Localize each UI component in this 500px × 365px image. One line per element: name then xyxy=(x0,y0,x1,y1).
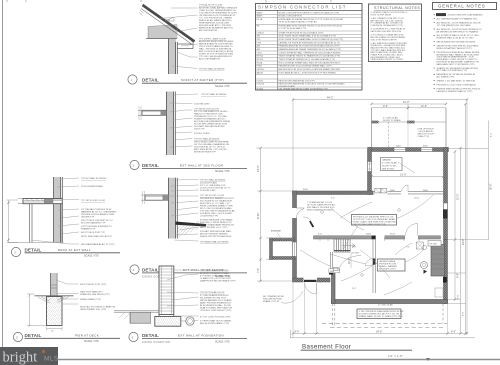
svg-text:PIER AT DECK: PIER AT DECK xyxy=(75,333,99,337)
svg-text:DIMS IN FIELD PRIOR TO CONST.: DIMS IN FIELD PRIOR TO CONST. xyxy=(371,59,404,61)
svg-text:TYP EXT WALL AT SIDING: TYP EXT WALL AT SIDING xyxy=(199,68,225,71)
svg-text:SEE NOTES: SEE NOTES xyxy=(382,168,395,170)
interior wall vertical xyxy=(365,239,375,293)
earth hatch xyxy=(177,225,205,238)
svg-text:1/4" = 1'-0": 1/4" = 1'-0" xyxy=(388,354,403,358)
svg-text:11'-6": 11'-6" xyxy=(421,105,427,108)
drain tile xyxy=(186,317,194,325)
svg-text:AREAWAY: AREAWAY xyxy=(271,230,282,233)
rake ticks xyxy=(139,10,144,16)
window in left upper wall xyxy=(368,162,372,172)
svg-text:30'-8": 30'-8" xyxy=(490,184,493,190)
svg-text:XXXXXX DENOTES LOAD BEARING: XXXXXX DENOTES LOAD BEARING xyxy=(448,14,483,17)
svg-text:8'-0": 8'-0" xyxy=(463,312,465,316)
interior wall top horizontal xyxy=(373,185,444,195)
hatched wall: right xyxy=(444,148,448,240)
svg-text:HDG HARDWARE AT ALL PT (TYP): HDG HARDWARE AT ALL PT (TYP) xyxy=(81,243,115,246)
svg-text:BE VERIFIED W/ MFR PRIOR TO FR: BE VERIFIED W/ MFR PRIOR TO FRAMING xyxy=(437,30,479,33)
svg-text:FINISH GRADE (TYP): FINISH GRADE (TYP) xyxy=(80,298,101,301)
svg-text:7'-0": 7'-0" xyxy=(257,268,260,273)
svg-text:SCALE: NTS: SCALE: NTS xyxy=(84,340,99,343)
svg-text:10'-2": 10'-2" xyxy=(348,258,351,264)
svg-text:24'-6": 24'-6" xyxy=(376,331,382,334)
svg-text:NOTE: SEE PLAN FOR LAYOUT: NOTE: SEE PLAN FOR LAYOUT xyxy=(81,235,113,238)
title row detail 1 xyxy=(128,75,247,88)
detail 4: ext wall at 1st floor xyxy=(130,178,247,279)
svg-text:MTS12: MTS12 xyxy=(257,56,265,58)
stair treads xyxy=(334,239,359,255)
svg-text:AIR CIRCULATION: AIR CIRCULATION xyxy=(199,29,217,32)
grade wedge xyxy=(176,222,207,227)
title row detail 5 xyxy=(13,332,120,343)
svg-text:TE W/ (5) 8d NAILS EA END (TYP: TE W/ (5) 8d NAILS EA END (TYP AT ALL xyxy=(279,21,319,24)
svg-text:SIMPSON CONNECTOR LIST: SIMPSON CONNECTOR LIST xyxy=(258,5,347,10)
svg-text:TYPICAL ROOF COLOR: TYPICAL ROOF COLOR xyxy=(199,4,223,7)
svg-text:6X6 PT WOOD POST (TYP): 6X6 PT WOOD POST (TYP) xyxy=(80,284,107,286)
svg-text:ROOF 30 PSF SNOW: ROOF 30 PSF SNOW xyxy=(371,14,392,16)
stair bottom door frames xyxy=(334,256,361,271)
svg-text:DETAIL: DETAIL xyxy=(25,247,42,252)
svg-text:SHIELD PROTECTION AS REQD: SHIELD PROTECTION AS REQD xyxy=(200,235,232,238)
structural notes box xyxy=(369,4,422,62)
ledger / floor band xyxy=(23,199,62,204)
simpson connector list table xyxy=(256,4,363,91)
svg-text:LSTA12: LSTA12 xyxy=(257,31,265,34)
svg-text:9'-2": 9'-2" xyxy=(331,198,335,200)
svg-text:PVT SOFFIT - EAVE COLOR: PVT SOFFIT - EAVE COLOR xyxy=(199,37,227,40)
up label box xyxy=(428,241,441,247)
svg-text:SCALE: NTS: SCALE: NTS xyxy=(215,341,230,344)
door opening w/ lintel in bottom-left wall xyxy=(304,278,318,295)
svg-text:AT 4" MAX CLR SPACING (TYP): AT 4" MAX CLR SPACING (TYP) xyxy=(437,69,468,72)
detail 6: ext wall at foundation xyxy=(114,266,247,344)
svg-text:WIRED W/ BATTERY BACKUP (TYP): WIRED W/ BATTERY BACKUP (TYP) xyxy=(437,47,472,50)
svg-text:MLS: MLS xyxy=(44,356,59,363)
svg-text:STUD PLATE TIE AT SHEAR WALL H: STUD PLATE TIE AT SHEAR WALL HOLD DOWNS … xyxy=(279,38,344,41)
boxed note mid xyxy=(352,215,397,227)
black post below stair block xyxy=(443,277,447,283)
title row detail 3 xyxy=(11,247,120,257)
svg-text:DETAIL: DETAIL xyxy=(142,267,159,272)
svg-text:LADDER IF DEEPER THAN 44" (TYP: LADDER IF DEEPER THAN 44" (TYP) xyxy=(437,90,473,93)
svg-text:BATH FANS VENT TO EXTERIOR (TY: BATH FANS VENT TO EXTERIOR (TYP) xyxy=(437,63,475,66)
soffit box xyxy=(177,42,193,49)
svg-text:44'-2": 44'-2" xyxy=(327,97,333,100)
svg-text:INTERIOR FINISH TYP: INTERIOR FINISH TYP xyxy=(194,151,217,153)
svg-text:ALL DIMENSIONS ARE TO FRAMING: ALL DIMENSIONS ARE TO FRAMING UNO xyxy=(437,18,478,21)
window gap right wall xyxy=(444,203,448,210)
svg-text:SEE ELEVATIONS FOR WINDOW SIZE: SEE ELEVATIONS FOR WINDOW SIZES xyxy=(437,41,476,44)
svg-text:H2.5A: H2.5A xyxy=(257,18,263,21)
svg-text:UNDISTURBED SOIL (TYP): UNDISTURBED SOIL (TYP) xyxy=(80,309,107,311)
svg-text:CS16: CS16 xyxy=(257,52,263,54)
window top-right xyxy=(421,146,433,152)
svg-text:4" CONC SLAB: 4" CONC SLAB xyxy=(378,303,393,306)
svg-text:MARK: MARK xyxy=(257,12,264,15)
svg-text:COILED STRAP AT WALL OPENINGS: COILED STRAP AT WALL OPENINGS W/ (14) 10… xyxy=(279,51,341,54)
svg-text:LEDGER TYP: LEDGER TYP xyxy=(81,217,95,219)
svg-text:DETAIL: DETAIL xyxy=(142,78,159,83)
svg-text:SIDING CONDITION: SIDING CONDITION xyxy=(142,341,170,344)
svg-text:CONCRETE OR MASONRY (TYP): CONCRETE OR MASONRY (TYP) xyxy=(371,24,404,27)
leaders d4 xyxy=(165,180,199,242)
door gap left wall xyxy=(292,208,305,218)
svg-text:SCALE: NTS: SCALE: NTS xyxy=(215,170,230,173)
svg-text:MARK: MARK xyxy=(257,15,264,18)
footing xyxy=(155,317,181,327)
svg-text:DECK AT EXT WALL: DECK AT EXT WALL xyxy=(58,248,91,252)
svg-text:2X4 SILL PLATE: 2X4 SILL PLATE xyxy=(194,132,210,135)
svg-text:MTS16: MTS16 xyxy=(257,59,265,61)
text block soffit colour xyxy=(199,37,234,60)
svg-text:9'-8": 9'-8" xyxy=(457,273,460,278)
svg-text:SCALE: NTS: SCALE: NTS xyxy=(215,85,230,88)
areaway window well xyxy=(270,189,309,259)
door below post right wall xyxy=(435,288,443,297)
dark block in right wall xyxy=(443,210,448,219)
svg-text:8" X 16" CONC FOOTING (TYP): 8" X 16" CONC FOOTING (TYP) xyxy=(200,316,231,318)
bright MLS watermark xyxy=(0,347,59,365)
svg-text:FRAMING ANGLE AT SHEAR TRANSFE: FRAMING ANGLE AT SHEAR TRANSFER W/ (12) … xyxy=(279,48,342,51)
svg-text:HOOKUPS (TYP): HOOKUPS (TYP) xyxy=(379,269,396,271)
svg-text:FRAMING TYP: FRAMING TYP xyxy=(81,228,96,231)
sheet border left xyxy=(2,0,4,347)
svg-text:CONTROL JOINT LAYOUT (TYP): CONTROL JOINT LAYOUT (TYP) xyxy=(200,309,232,312)
svg-text:LUS210: LUS210 xyxy=(257,84,265,86)
hatched wall: bottom-left xyxy=(293,278,331,282)
svg-text:FRAMING ANGLE AT BLOCKING W/ (: FRAMING ANGLE AT BLOCKING W/ (8) 8d NAIL… xyxy=(279,45,340,48)
leaders d3 xyxy=(31,178,79,244)
svg-text:W8X18 STEEL BEAM OVER (TYP): W8X18 STEEL BEAM OVER (TYP) xyxy=(353,223,386,226)
svg-text:1/2" OSB SPACER UNO ON PLANS: 1/2" OSB SPACER UNO ON PLANS xyxy=(437,24,471,27)
svg-text:24'-8": 24'-8" xyxy=(462,239,465,245)
svg-text:SSTB16: SSTB16 xyxy=(257,69,266,71)
svg-text:7'-1": 7'-1" xyxy=(406,247,410,249)
svg-text:INTERIOR WALLS 2X4 AT 16" OC U: INTERIOR WALLS 2X4 AT 16" OC UNO xyxy=(437,37,475,40)
interior wall mid horizontal xyxy=(314,224,441,240)
svg-text:8'-0": 8'-0" xyxy=(295,331,300,334)
sheet border bottom xyxy=(58,359,500,361)
svg-text:6'-8": 6'-8" xyxy=(352,247,356,249)
svg-text:PROVIDE ILC 2015 CODE COMPLIAN: PROVIDE ILC 2015 CODE COMPLIANCE xyxy=(437,83,477,86)
svg-text:FACE MOUNT HANGER AT 2X6 (TYP): FACE MOUNT HANGER AT 2X6 (TYP) xyxy=(279,79,316,82)
svg-text:MIN 6" IN FIRST 10'-0" (TYP): MIN 6" IN FIRST 10'-0" (TYP) xyxy=(200,227,228,229)
foundation wall xyxy=(159,266,174,315)
grade at left / slab xyxy=(114,311,159,313)
window in left wall at areaway xyxy=(293,242,297,257)
svg-text:UP 14R: UP 14R xyxy=(430,243,438,245)
svg-text:STAIRS: 7 3/4" MAX RISE / 10": STAIRS: 7 3/4" MAX RISE / 10" MIN RUN xyxy=(437,80,476,83)
roof sheathing sloped band xyxy=(143,5,195,42)
svg-text:TYP EXT'R SLAB COLOR: TYP EXT'R SLAB COLOR xyxy=(200,291,225,294)
svg-text:8'-0": 8'-0" xyxy=(458,295,460,299)
svg-text:6X6 PT DECK POST TYP: 6X6 PT DECK POST TYP xyxy=(81,232,106,234)
svg-text:HD2A: HD2A xyxy=(257,61,263,64)
svg-text:LATERAL TIE PLATE AT RIM BOARD: LATERAL TIE PLATE AT RIM BOARD W/ (12) 8… xyxy=(279,41,341,44)
dims xyxy=(27,294,47,327)
svg-text:DETAIL: DETAIL xyxy=(142,333,159,338)
bottom wall gray xyxy=(332,300,448,304)
hatched wall: step horizontal xyxy=(293,191,374,195)
svg-text:TYP EXT WALL AT SIDING: TYP EXT WALL AT SIDING xyxy=(201,93,227,96)
svg-text:TYP EXT WALL AT SIDING: TYP EXT WALL AT SIDING xyxy=(200,179,226,182)
hatched wall: left lower vertical xyxy=(293,191,297,281)
title row detail 2 xyxy=(130,160,247,173)
svg-text:W/ JOIST HANGERS TYP: W/ JOIST HANGERS TYP xyxy=(81,222,106,225)
hatched wall: right lower xyxy=(444,240,448,304)
svg-text:SLOPE TO DR.: SLOPE TO DR. xyxy=(382,166,397,168)
detail 5: pier at deck xyxy=(13,273,120,343)
detail 2: ext wall at 2nd floor xyxy=(130,92,247,174)
svg-text:STRUCTURAL NOTES: STRUCTURAL NOTES xyxy=(374,6,420,10)
svg-text:13'-6": 13'-6" xyxy=(390,234,396,236)
svg-text:ABU44: ABU44 xyxy=(257,71,264,74)
svg-text:8'-0": 8'-0" xyxy=(451,331,456,334)
svg-text:ANCHOR BOLT AT HOLD DOWN LOCAT: ANCHOR BOLT AT HOLD DOWN LOCATIONS EMBED… xyxy=(279,68,341,71)
svg-text:GENERAL NOTES: GENERAL NOTES xyxy=(438,4,486,9)
junction post black xyxy=(372,236,376,240)
title row detail 6 xyxy=(129,332,247,344)
garage label box xyxy=(381,158,403,171)
grade line xyxy=(35,295,74,297)
svg-text:PLAN (TYP): PLAN (TYP) xyxy=(418,135,430,138)
svg-text:EXT WALL AT FOUNDATION: EXT WALL AT FOUNDATION xyxy=(178,333,224,337)
svg-text:21'-0": 21'-0" xyxy=(400,174,406,177)
svg-text:Basement Floor: Basement Floor xyxy=(302,344,351,351)
garage interior dim xyxy=(370,174,444,178)
svg-text:5'-0": 5'-0" xyxy=(318,234,322,236)
floor band xyxy=(142,110,167,115)
svg-text:FRAME (TYP) PT.: FRAME (TYP) PT. xyxy=(263,300,280,303)
post xyxy=(51,273,58,297)
svg-text:SLOPE TO DRAIN: SLOPE TO DRAIN xyxy=(383,119,401,122)
svg-text:TYP EXT WALL AT SIDING: TYP EXT WALL AT SIDING xyxy=(194,137,220,140)
svg-text:D POST W/ (8) 8d NAILS TYP: D POST W/ (8) 8d NAILS TYP xyxy=(279,27,308,30)
bottom line xyxy=(8,242,64,244)
svg-text:GRAVEL BASE. SLOPE TO DRAIN (T: GRAVEL BASE. SLOPE TO DRAIN (TYP) UNO xyxy=(359,315,403,318)
deck post xyxy=(30,204,33,243)
svg-text:LUS26: LUS26 xyxy=(257,80,264,82)
svg-text:MODEL / DESCRIPTION: MODEL / DESCRIPTION xyxy=(279,16,303,18)
detail 3: deck at ext wall xyxy=(7,177,121,257)
svg-text:8'-10": 8'-10" xyxy=(257,213,260,219)
earth hatch left/right xyxy=(37,296,51,303)
svg-text:bright: bright xyxy=(3,350,38,365)
wall at eave xyxy=(169,39,176,74)
gray stair block xyxy=(431,245,445,277)
svg-text:2X10 RIM JOIST: 2X10 RIM JOIST xyxy=(194,103,210,105)
svg-text:TYP 1ST FLOOR COLOR: TYP 1ST FLOOR COLOR xyxy=(200,195,225,197)
stair room wall vertical gray xyxy=(332,271,336,304)
svg-text:TYP EXT WALL AT SIDING: TYP EXT WALL AT SIDING xyxy=(81,177,107,180)
svg-text:14'-4": 14'-4" xyxy=(257,166,260,172)
laundry note box xyxy=(378,259,406,271)
svg-text:ALL STAIRS (TYP): ALL STAIRS (TYP) xyxy=(437,76,455,79)
svg-text:DETAIL: DETAIL xyxy=(25,333,42,338)
hatched wall: left upper xyxy=(368,148,372,195)
leaders d1 xyxy=(160,8,198,69)
bottom note box xyxy=(357,309,404,319)
svg-text:UP 14R: UP 14R xyxy=(352,253,360,255)
svg-text:ADD'L INFORMATION: ADD'L INFORMATION xyxy=(199,58,220,61)
svg-text:21'-0": 21'-0" xyxy=(403,101,409,104)
svg-text:INSUL BLANKET AT WALLS: INSUL BLANKET AT WALLS xyxy=(307,208,334,211)
top dimension lines xyxy=(292,97,468,334)
svg-text:TYP BRACE WALL AT SIDING: TYP BRACE WALL AT SIDING xyxy=(200,241,229,244)
svg-text:10'-6": 10'-6" xyxy=(414,198,420,200)
top edge ticks xyxy=(7,0,331,3)
svg-text:5'-4": 5'-4" xyxy=(352,288,356,290)
window top-left xyxy=(394,146,406,152)
floor band xyxy=(145,195,169,200)
general notes xyxy=(433,3,497,93)
svg-text:HOLD DOWN AT SHEAR WALL ENDS W: HOLD DOWN AT SHEAR WALL ENDS W/ 5/8 DIA … xyxy=(279,61,342,64)
text block roof colour xyxy=(199,4,238,32)
svg-text:DAMPPROOF BELOW GRADE (TYP): DAMPPROOF BELOW GRADE (TYP) xyxy=(200,279,236,282)
svg-text:SCALE: NTS: SCALE: NTS xyxy=(84,254,99,257)
left room note text xyxy=(307,201,336,212)
black post at stair room corner xyxy=(329,271,333,275)
svg-text:GARAGE: GARAGE xyxy=(382,159,392,162)
top wall extension line to right xyxy=(449,148,489,150)
porch/garage slab lines above plan xyxy=(372,108,447,148)
detail 1: soffit at rafter xyxy=(128,4,247,88)
svg-text:EXT WALL AT 2ND FLOOR: EXT WALL AT 2ND FLOOR xyxy=(180,163,224,167)
svg-text:TYP 1ST FLOOR COLOR: TYP 1ST FLOOR COLOR xyxy=(81,200,106,202)
door leaf left room xyxy=(303,217,314,227)
ceiling line xyxy=(146,38,177,40)
svg-text:DBL SHEAR HANGER AT STAIR STRI: DBL SHEAR HANGER AT STAIR STRINGERS (TYP… xyxy=(279,87,329,90)
wall upper xyxy=(54,177,61,199)
concrete pier xyxy=(47,297,63,326)
interior sprinkle labels xyxy=(318,164,420,290)
leader curves xyxy=(300,162,433,295)
wall xyxy=(169,178,176,239)
svg-text:8'-4": 8'-4" xyxy=(491,133,493,137)
rafter insulation hatch xyxy=(148,25,177,39)
svg-text:TYP BRACE WALL AT SIDING: TYP BRACE WALL AT SIDING xyxy=(200,269,229,272)
bottom dimensions xyxy=(290,281,475,338)
svg-text:PREDEFLECTED HOLD DOWN AT SHEA: PREDEFLECTED HOLD DOWN AT SHEAR WALL (TY… xyxy=(279,65,332,68)
svg-text:12": 12" xyxy=(51,331,54,333)
svg-text:STANDOFF. SEE SPECS (TYP): STANDOFF. SEE SPECS (TYP) xyxy=(80,293,110,296)
leaders d6 xyxy=(167,270,199,321)
wall lower xyxy=(54,204,62,243)
svg-text:STUD PLATE TIE AT SHEAR WALLS: STUD PLATE TIE AT SHEAR WALLS W/ (6) 10d… xyxy=(279,35,337,38)
left bottom label xyxy=(263,291,303,303)
svg-text:9'-6": 9'-6" xyxy=(383,105,388,108)
fixtures near right wall xyxy=(416,242,427,274)
svg-text:MODEL / DESCRIPTION REFER TO S: MODEL / DESCRIPTION REFER TO SIMPSON CAT… xyxy=(279,12,340,15)
svg-text:BED W/ FILTER FABRIC (TYP): BED W/ FILTER FABRIC (TYP) xyxy=(200,322,229,325)
leaders d2 xyxy=(170,94,198,147)
svg-text:POST BASE AT DECK + PORCH POST: POST BASE AT DECK + PORCH POSTS (TYP HDG… xyxy=(279,71,336,74)
right dimension column xyxy=(448,103,493,335)
hatched wall: top xyxy=(368,148,449,152)
corner label box xyxy=(329,269,340,273)
svg-text:STRAP TIE AT RIDGE W/ (10) 10d: STRAP TIE AT RIDGE W/ (10) 10d NAILS (TY… xyxy=(279,31,324,34)
svg-text:SOFFIT AT RAFTER (TYP): SOFFIT AT RAFTER (TYP) xyxy=(181,78,224,82)
svg-text:12'-0": 12'-0" xyxy=(457,194,460,200)
svg-text:2X10 LEDGER BOARD: 2X10 LEDGER BOARD xyxy=(81,185,103,188)
plan title xyxy=(301,344,413,358)
stair side wall lines xyxy=(330,252,332,271)
title row detail 4 xyxy=(130,265,247,279)
dashed porch below xyxy=(322,303,447,327)
wall xyxy=(167,92,174,156)
left dimension column xyxy=(256,147,368,282)
svg-text:SOIL (TYP) FROST DEPTH: SOIL (TYP) FROST DEPTH xyxy=(371,39,397,41)
svg-text:LTP4: LTP4 xyxy=(257,42,263,44)
svg-text:TYP 2ND FLOOR COLOR: TYP 2ND FLOOR COLOR xyxy=(194,108,219,110)
svg-text:DETAIL: DETAIL xyxy=(142,163,159,168)
svg-text:2X10 RIM JOIST: 2X10 RIM JOIST xyxy=(200,190,216,192)
svg-text:DAYS MIN. SOIL BRG 1500 PSF: DAYS MIN. SOIL BRG 1500 PSF xyxy=(371,30,402,33)
leaders d5 xyxy=(56,280,79,304)
svg-text:PHD2: PHD2 xyxy=(257,66,263,68)
svg-text:LOCATIONS (TYP): LOCATIONS (TYP) xyxy=(200,215,218,218)
slope symbol 5/12 xyxy=(165,17,174,21)
svg-text:JOIST TYP: JOIST TYP xyxy=(194,129,205,131)
svg-text:TWIST STRAP AT GIRDER W/ (7) 1: TWIST STRAP AT GIRDER W/ (7) 10d NAILS E… xyxy=(279,58,336,61)
svg-text:4" CONC SLAB: 4" CONC SLAB xyxy=(382,162,397,165)
dim line xyxy=(7,200,19,243)
svg-text:TWIST STRAP AT TRUSS TO HEADER: TWIST STRAP AT TRUSS TO HEADER W/ (7) 10… xyxy=(279,55,341,58)
svg-text:HUS26: HUS26 xyxy=(257,88,265,90)
